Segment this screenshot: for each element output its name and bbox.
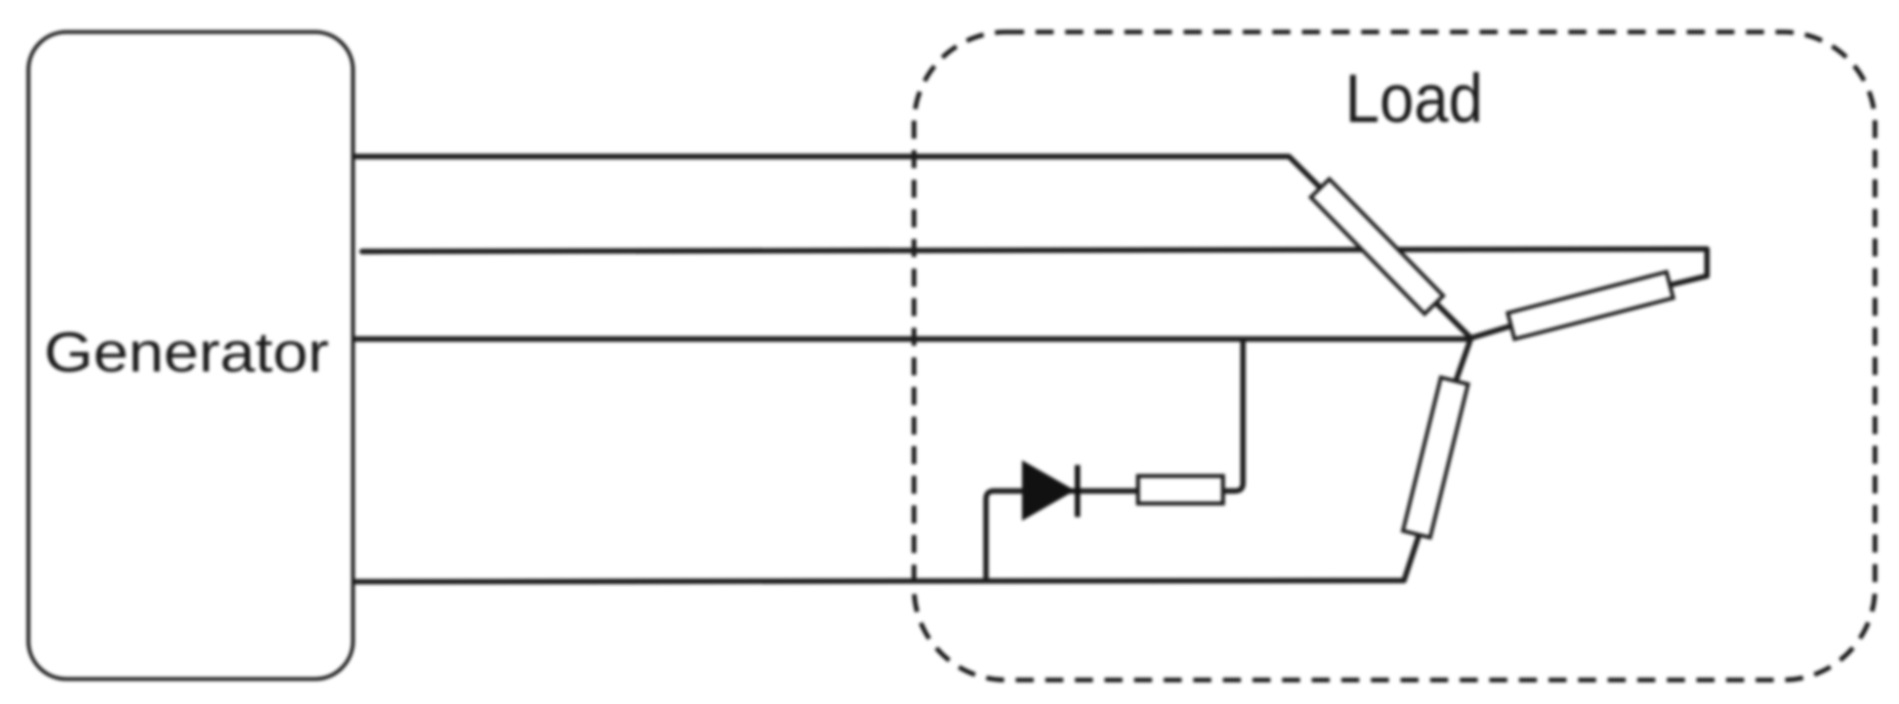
wire diode branch: drop from neutral, to diode anode — [986, 491, 1138, 580]
wire phase B (middle) — [362, 249, 1707, 285]
svg-text:Generator: Generator — [44, 321, 329, 385]
wire from R2 to star node — [1471, 326, 1511, 338]
resistor R1 (phase A, 45 deg) — [1311, 179, 1443, 314]
resistor R4 (diode branch) — [1138, 476, 1223, 504]
wire phase C (to star node) — [353, 336, 1471, 341]
wire phase A (top) — [353, 157, 1471, 339]
resistor R3 (neutral leg, near vertical) — [1403, 377, 1468, 537]
wire neutral (bottom) rising to R3 and star node — [353, 338, 1471, 582]
svg-text:Load: Load — [1345, 60, 1483, 137]
load dashed box — [914, 32, 1875, 680]
resistor R2 (phase B, shallow tilt) — [1508, 272, 1674, 339]
wire from R4 up to phase C wire — [1223, 338, 1243, 491]
diode D1 — [1023, 462, 1078, 519]
generator box — [28, 32, 353, 679]
